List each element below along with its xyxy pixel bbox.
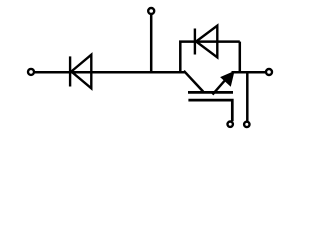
transistor Q1 body bar xyxy=(188,91,233,94)
wire (left terminal to collector node, main rail) xyxy=(35,71,185,74)
terminal X3 (right, emitter) xyxy=(266,69,272,75)
diode D2 cathode bar xyxy=(194,29,196,55)
transistor Q1 emitter line xyxy=(213,75,231,95)
transistor Q1 gate bar with lead to gate terminal xyxy=(188,100,232,121)
wire (freewheel diode right leg down to emitter rail) xyxy=(239,42,242,74)
transistor Q1 collector slant xyxy=(184,71,203,92)
diode D1 triangle xyxy=(71,55,91,89)
terminal X2 (top, collector) xyxy=(148,8,154,14)
wire (top terminal stem down to rail) xyxy=(150,15,153,74)
terminal X1 (left, AC input) xyxy=(28,69,34,75)
diode D2 triangle xyxy=(196,26,217,58)
wire (auxiliary emitter drop) xyxy=(246,72,249,121)
diode D1 cathode bar xyxy=(69,56,71,86)
transistor Q1 emitter arrowhead xyxy=(222,72,234,85)
wire (emitter node rail to right terminal) xyxy=(232,71,266,74)
terminal X4 (gate) xyxy=(228,122,233,127)
wire (through freewheel diode row) xyxy=(194,40,240,43)
wire (freewheel diode loop: left leg up and across) xyxy=(180,42,194,74)
terminal X5 (auxiliary emitter) xyxy=(244,122,249,127)
